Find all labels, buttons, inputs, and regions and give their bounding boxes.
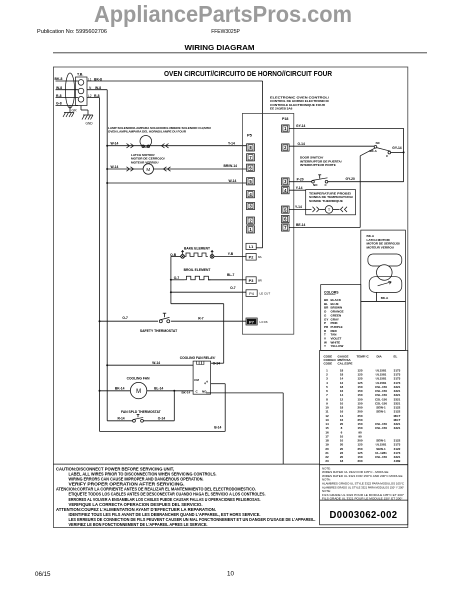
svg-text:O-14: O-14	[298, 142, 305, 146]
svg-text:CM: CM	[194, 378, 199, 382]
svg-text:YELLOW: YELLOW	[331, 344, 344, 348]
svg-text:DIA: DIA	[377, 354, 383, 358]
svg-text:BL-14: BL-14	[154, 386, 163, 390]
svg-text:O-14: O-14	[158, 417, 165, 421]
svg-text:SONDE THERMIQUE: SONDE THERMIQUE	[309, 199, 343, 203]
svg-text:WIRES RATED UL 3321 FOR 150°C: WIRES RATED UL 3321 FOR 150°C AND 200°C …	[322, 474, 403, 478]
svg-text:3321: 3321	[394, 426, 401, 430]
svg-text:BE-14: BE-14	[296, 223, 306, 227]
svg-text:BK.A: BK.A	[370, 149, 378, 153]
svg-text:CAL.ESPE: CAL.ESPE	[338, 362, 353, 366]
svg-text:Y-14: Y-14	[228, 142, 235, 146]
svg-text:W-14: W-14	[111, 165, 119, 169]
svg-text:18: 18	[340, 459, 344, 463]
svg-text:P5: P5	[247, 132, 253, 137]
svg-text:BR/W-14: BR/W-14	[224, 164, 238, 168]
svg-text:D0003062-002: D0003062-002	[330, 509, 398, 521]
svg-text:W-14: W-14	[152, 361, 160, 365]
svg-text:R-14: R-14	[118, 417, 125, 421]
svg-text:P3: P3	[249, 279, 254, 283]
svg-text:BK-14: BK-14	[115, 386, 125, 390]
svg-text:O-7: O-7	[122, 316, 128, 320]
svg-text:COOLING FAN RELAY/: COOLING FAN RELAY/	[180, 356, 216, 360]
svg-text:BK-8: BK-8	[55, 77, 63, 81]
svg-text:BL-7: BL-7	[227, 273, 234, 277]
svg-text:O-7: O-7	[230, 286, 236, 290]
svg-text:NO: NO	[313, 183, 318, 187]
svg-text:G-8: G-8	[56, 102, 62, 106]
svg-text:L1: L1	[249, 245, 253, 249]
svg-text:8A: 8A	[258, 255, 262, 259]
svg-text:W-14: W-14	[229, 179, 237, 183]
svg-text:P4: P4	[249, 292, 254, 296]
svg-text:W-8: W-8	[56, 86, 62, 90]
svg-text:ALAMBRES GRADO UL STYLE 3321 P: ALAMBRES GRADO UL STYLE 3321 PARA MODULO…	[322, 485, 404, 489]
svg-text:23: 23	[325, 459, 329, 463]
svg-text:GY-14: GY-14	[392, 146, 402, 150]
svg-text:FFEW3025P: FFEW3025P	[211, 29, 240, 35]
svg-text:BK-14: BK-14	[182, 391, 191, 395]
svg-text:T.B.: T.B.	[77, 73, 83, 77]
svg-text:COLORS: COLORS	[324, 290, 339, 294]
svg-text:P2: P2	[249, 256, 254, 260]
svg-text:OVEN CIRCUIT//CIRCUITO DE HORN: OVEN CIRCUIT//CIRCUITO DE HORNO//CIRCUIT…	[164, 71, 332, 78]
svg-text:R-7: R-7	[198, 317, 203, 321]
svg-text:BROIL ELEMENT: BROIL ELEMENT	[184, 268, 211, 272]
svg-text:P7: P7	[249, 320, 254, 324]
svg-text:SEW-1: SEW-1	[376, 410, 386, 414]
svg-text:AppliancePartsPros.com: AppliancePartsPros.com	[94, 1, 352, 27]
svg-text:MOTEUR VERROU: MOTEUR VERROU	[131, 160, 159, 164]
svg-text:W-14: W-14	[111, 142, 119, 146]
svg-text:O-7: O-7	[174, 276, 180, 280]
svg-text:M: M	[146, 167, 150, 172]
svg-text:EL: EL	[394, 354, 398, 358]
svg-text:LE CUT: LE CUT	[260, 292, 271, 296]
svg-text:Y-B: Y-B	[228, 252, 234, 256]
svg-text:P-20: P-20	[297, 178, 304, 182]
svg-text:GND: GND	[86, 122, 94, 126]
svg-text:GR: GR	[72, 109, 78, 113]
svg-text:VERIFIEZ LE BON FONCTIONNEMENT: VERIFIEZ LE BON FONCTIONNEMENT DE L'APPA…	[69, 522, 208, 527]
svg-text:P18: P18	[282, 117, 288, 121]
svg-text:10: 10	[227, 571, 234, 578]
svg-text:Publication No: 5995602706: Publication No: 5995602706	[37, 29, 107, 35]
svg-text:COOLING FAN: COOLING FAN	[127, 376, 151, 380]
svg-text:BAKE ELEMENT: BAKE ELEMENT	[184, 247, 210, 251]
svg-text:O-14: O-14	[213, 361, 220, 365]
svg-text:200: 200	[357, 459, 362, 463]
svg-text:TEMP.°C: TEMP.°C	[357, 354, 370, 358]
svg-text:Y-14: Y-14	[296, 186, 303, 190]
svg-text:R-8: R-8	[56, 94, 62, 98]
svg-text:SAFETY THERMOSTAT: SAFETY THERMOSTAT	[140, 329, 178, 333]
svg-text:FAN SPLD THERMOSTAT: FAN SPLD THERMOSTAT	[121, 410, 161, 414]
svg-text:B-14: B-14	[214, 426, 221, 430]
svg-text:CSL-150: CSL-150	[375, 455, 387, 459]
svg-text:M: M	[136, 389, 141, 395]
svg-text:INTERRUPTEUR PORTE: INTERRUPTEUR PORTE	[300, 163, 336, 167]
svg-text:BK.A: BK.A	[381, 296, 389, 300]
svg-text:WIRING DIAGRAM: WIRING DIAGRAM	[185, 45, 255, 52]
svg-text:OVEN LAMP/LAMPARA DEL HORNO/LA: OVEN LAMP/LAMPARA DEL HORNO/LAMPE DU FOU…	[108, 130, 187, 134]
svg-text:4489: 4489	[394, 459, 401, 463]
svg-text:CODE: CODE	[324, 362, 333, 366]
svg-text:Y-14: Y-14	[295, 205, 302, 209]
svg-text:EE 2A3/EB 3A6: EE 2A3/EB 3A6	[270, 107, 293, 111]
svg-text:Y: Y	[324, 344, 326, 348]
svg-text:CSL-150: CSL-150	[375, 426, 387, 430]
svg-text:MOTEUR VERROU: MOTEUR VERROU	[367, 245, 395, 249]
svg-text:GY-20: GY-20	[346, 177, 356, 181]
svg-text:GY-14: GY-14	[296, 124, 306, 128]
svg-text:06/15: 06/15	[35, 571, 51, 578]
svg-text:L3 D6: L3 D6	[260, 320, 268, 324]
